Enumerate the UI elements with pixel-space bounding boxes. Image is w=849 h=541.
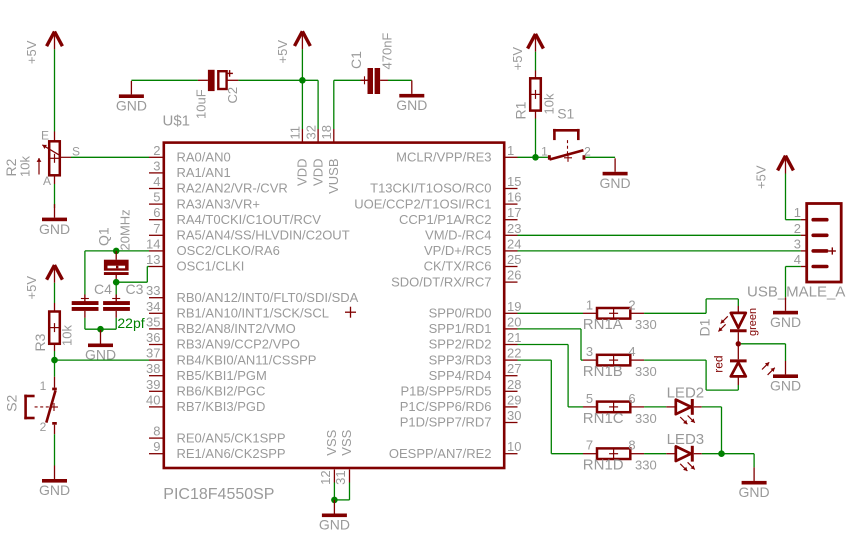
svg-text:GND: GND — [396, 97, 427, 113]
svg-text:VSS: VSS — [339, 429, 354, 455]
svg-text:470nF: 470nF — [380, 33, 395, 70]
svg-text:15: 15 — [507, 174, 521, 189]
svg-text:25: 25 — [507, 252, 521, 267]
resistor RN1C 330 — [583, 391, 657, 427]
svg-text:RA4/T0CKI/C1OUT/RCV: RA4/T0CKI/C1OUT/RCV — [177, 212, 322, 227]
U1 pin 7 RA5/AN4/SS/HLVDIN/C2OUT — [149, 221, 350, 243]
wire junction to S1 — [536, 156, 548, 158]
svg-text:C4: C4 — [94, 281, 112, 297]
wire C2 to junction — [238, 79, 302, 81]
capacitor C3 22pf — [103, 281, 144, 318]
svg-text:7: 7 — [586, 438, 593, 453]
svg-text:VM/D-/RC4: VM/D-/RC4 — [425, 228, 491, 243]
svg-text:R1: R1 — [513, 101, 529, 119]
svg-text:GND: GND — [739, 484, 770, 500]
LED LED3 — [666, 431, 704, 471]
svg-text:+5V: +5V — [24, 276, 39, 300]
ground GND6 — [600, 158, 631, 191]
svg-text:RB0/AN12/INT0/FLT0/SDI/SDA: RB0/AN12/INT0/FLT0/SDI/SDA — [177, 290, 359, 305]
svg-text:CK/TX/RC6: CK/TX/RC6 — [424, 259, 492, 274]
wire +5V down — [301, 49, 303, 80]
U1 pin 29 P1C/SPP6/RD6 — [400, 392, 522, 414]
U1 pin 20 SPP1/RD1 — [429, 314, 522, 336]
svg-text:1: 1 — [586, 297, 593, 312]
svg-text:SPP4/RD4: SPP4/RD4 — [429, 368, 492, 383]
svg-text:2: 2 — [584, 145, 591, 159]
svg-text:PIC18F4550SP: PIC18F4550SP — [163, 486, 274, 503]
svg-text:+5V: +5V — [275, 40, 290, 64]
wire R1 to junction — [535, 119, 537, 158]
svg-text:4: 4 — [153, 174, 160, 189]
svg-text:+5V: +5V — [24, 40, 39, 64]
wire R2 bottom to ground — [54, 184, 56, 208]
wire +5V to R3 — [54, 283, 56, 303]
svg-text:VUSB: VUSB — [326, 159, 341, 194]
svg-text:35: 35 — [146, 314, 160, 329]
svg-text:12: 12 — [318, 470, 333, 484]
U1 pin 16 UOE/CCP2/T1OSI/RC1 — [354, 190, 521, 212]
wire R3 to junction — [54, 351, 56, 360]
svg-text:MCLR/VPP/RE3: MCLR/VPP/RE3 — [396, 150, 491, 165]
svg-text:8: 8 — [153, 424, 160, 439]
wire GND to C2 — [131, 79, 198, 81]
svg-text:SPP1/RD1: SPP1/RD1 — [429, 321, 492, 336]
svg-text:1: 1 — [541, 145, 548, 159]
U1 pin 30 P1D/SPP7/RD7 — [400, 408, 522, 430]
supply +5V P1 — [24, 32, 62, 65]
svg-text:GND: GND — [116, 98, 147, 114]
U1 pin 26 SDO/DT/RX/RC7 — [391, 268, 521, 290]
U1 pin 24 VP/D+/RC5 — [424, 236, 522, 258]
svg-text:RN1B: RN1B — [583, 363, 623, 380]
svg-text:A: A — [43, 174, 51, 188]
svg-text:28: 28 — [507, 377, 521, 392]
supply +5V P4 — [510, 34, 544, 71]
supply +5V P5 — [754, 156, 794, 189]
svg-text:GND: GND — [770, 314, 801, 330]
svg-text:RA0/AN0: RA0/AN0 — [177, 150, 231, 165]
U1 pin 21 SPP2/RD2 — [429, 330, 522, 352]
wire pin 21 to RN1C — [518, 345, 584, 407]
svg-text:4: 4 — [794, 252, 801, 267]
svg-text:18: 18 — [319, 125, 334, 139]
wire RN1A to D1 green anode — [644, 299, 738, 313]
svg-text:27: 27 — [507, 361, 521, 376]
svg-text:RA5/AN4/SS/HLVDIN/C2OUT: RA5/AN4/SS/HLVDIN/C2OUT — [177, 228, 350, 243]
node junction MCLR — [532, 154, 539, 161]
wire junction to pin 11 — [301, 80, 303, 129]
wire pin 23 to USB pin 2 — [518, 234, 801, 236]
svg-text:+5V: +5V — [754, 165, 769, 189]
U1 pin 38 RB5/KBI1/PGM — [146, 361, 267, 383]
svg-text:5: 5 — [586, 391, 593, 406]
svg-text:9: 9 — [153, 439, 160, 454]
value label 22pf — [117, 315, 144, 331]
resistor R1 10k — [513, 71, 557, 120]
wire LED3 to junction — [702, 453, 722, 455]
svg-text:34: 34 — [146, 299, 160, 314]
svg-text:21: 21 — [507, 330, 521, 345]
svg-text:26: 26 — [507, 268, 521, 283]
crystal Q1 20MHz — [96, 209, 133, 282]
svg-text:VDD: VDD — [295, 159, 310, 186]
wire RN1D to LED3 — [644, 453, 666, 455]
svg-text:2: 2 — [40, 420, 47, 434]
U1 pin 40 RB7/KBI3/PGD — [146, 392, 265, 414]
connector USB_MALE_A — [747, 204, 845, 301]
svg-text:3: 3 — [153, 158, 160, 173]
switch S1 — [541, 106, 591, 162]
wire RN1C to LED2 — [644, 406, 666, 408]
IC U1 PIC18F4550 body — [164, 143, 504, 468]
U1 pin 27 SPP4/RD4 — [429, 361, 522, 383]
wire C1 to ground — [388, 79, 412, 81]
svg-text:UOE/CCP2/T1OSI/RC1: UOE/CCP2/T1OSI/RC1 — [354, 196, 491, 211]
node junction VSS — [331, 497, 338, 504]
wire R2 wiper to pin 2 — [71, 156, 149, 158]
U1 pin 9 RE1/AN6/CK2SPP — [149, 439, 286, 461]
wire RN1B to D1 red anode — [644, 360, 738, 390]
svg-text:6: 6 — [628, 391, 635, 406]
svg-text:GND: GND — [770, 378, 801, 394]
svg-text:11: 11 — [288, 126, 303, 140]
svg-text:19: 19 — [507, 299, 521, 314]
svg-text:RN1C: RN1C — [583, 410, 624, 427]
svg-text:2: 2 — [153, 143, 160, 158]
node junction Q1 top — [113, 248, 120, 255]
wire junction to ground — [722, 454, 755, 468]
svg-text:6: 6 — [153, 205, 160, 220]
U1 pin 31 VSS — [333, 429, 354, 485]
U1 pin 1 MCLR/VPP/RE3 — [396, 143, 517, 165]
node junction R3 S2 — [51, 357, 58, 364]
svg-text:CCP1/P1A/RC2: CCP1/P1A/RC2 — [399, 212, 491, 227]
svg-text:RB5/KBI1/PGM: RB5/KBI1/PGM — [177, 368, 267, 383]
svg-text:D1: D1 — [697, 318, 713, 336]
U1 name label — [163, 113, 191, 130]
resistor R3 10k — [32, 303, 75, 352]
svg-text:RE0/AN5/CK1SPP: RE0/AN5/CK1SPP — [177, 430, 286, 445]
svg-text:33: 33 — [146, 283, 160, 298]
ground GND4 — [116, 81, 147, 114]
svg-text:+5V: +5V — [510, 47, 525, 71]
svg-text:RB6/KBI2/PGC: RB6/KBI2/PGC — [177, 384, 266, 399]
svg-text:10k: 10k — [60, 325, 75, 346]
U1 pin 3 RA1/AN1 — [149, 158, 231, 180]
svg-text:4: 4 — [628, 344, 635, 359]
svg-text:22: 22 — [507, 346, 521, 361]
wire junction to pin 37 — [55, 359, 150, 361]
svg-text:330: 330 — [635, 317, 657, 332]
LED D1 bicolor — [697, 306, 775, 385]
svg-text:10k: 10k — [542, 93, 557, 114]
U1 pin 2 RA0/AN0 — [149, 143, 231, 165]
capacitor C2 10uF — [194, 70, 241, 119]
ground GND3 — [39, 466, 70, 499]
LED LED2 — [666, 384, 704, 424]
svg-text:RB2/AN8/INT2/VMO: RB2/AN8/INT2/VMO — [177, 321, 296, 336]
wire S1 to ground — [585, 156, 615, 158]
svg-text:S: S — [72, 144, 80, 158]
ground GND1 — [39, 204, 70, 237]
svg-text:31: 31 — [333, 470, 348, 484]
svg-text:38: 38 — [146, 361, 160, 376]
svg-text:10uF: 10uF — [194, 89, 209, 119]
U1 pin 37 RB4/KBI0/AN11/CSSPP — [146, 346, 316, 368]
U1 pin 35 RB2/AN8/INT2/VMO — [146, 314, 296, 336]
svg-text:GND: GND — [39, 221, 70, 237]
U1 pin 33 RB0/AN12/INT0/FLT0/SDI/SDA — [146, 283, 359, 305]
svg-text:SPP0/RD0: SPP0/RD0 — [429, 306, 492, 321]
svg-text:330: 330 — [635, 364, 657, 379]
U1 pin 28 P1B/SPP5/RD5 — [400, 377, 521, 399]
svg-text:17: 17 — [507, 205, 521, 220]
resistor RN1D 330 — [583, 438, 657, 474]
wire LED2 to junction — [702, 407, 722, 454]
svg-text:5: 5 — [153, 190, 160, 205]
wire +5V to R2 — [54, 49, 56, 131]
U1 pin 11 VDD — [288, 126, 310, 186]
svg-text:VDD: VDD — [310, 159, 325, 186]
U1 pin 39 RB6/KBI2/PGC — [146, 377, 265, 399]
wire pin 1 to junction — [518, 156, 536, 158]
svg-text:RB4/KBI0/AN11/CSSPP: RB4/KBI0/AN11/CSSPP — [177, 352, 317, 367]
U1 pin 36 RB3/AN9/CCP2/VPO — [146, 330, 300, 352]
svg-text:330: 330 — [635, 411, 657, 426]
svg-text:29: 29 — [507, 392, 521, 407]
svg-text:LED2: LED2 — [667, 384, 705, 401]
U1 pin 15 T13CKI/T1OSO/RC0 — [370, 174, 521, 196]
svg-text:RA2/AN2/VR-/CVR: RA2/AN2/VR-/CVR — [177, 181, 288, 196]
svg-text:red: red — [711, 355, 725, 372]
wire S2 to ground — [54, 434, 56, 465]
svg-text:20: 20 — [507, 314, 521, 329]
svg-text:20MHz: 20MHz — [118, 209, 133, 250]
U1 pin 34 RB1/AN10/INT1/SCK/SCL — [146, 299, 329, 321]
svg-text:U$1: U$1 — [163, 113, 191, 130]
wire Q1 bottom to pin 13 — [116, 267, 149, 283]
svg-text:C3: C3 — [126, 281, 144, 297]
resistor RN1B 330 — [583, 344, 657, 380]
U1 origin cross — [345, 307, 356, 318]
U1 value label PIC18F4550SP — [163, 486, 274, 503]
svg-text:T13CKI/T1OSO/RC0: T13CKI/T1OSO/RC0 — [370, 181, 491, 196]
wire +5V to R1 — [535, 52, 537, 71]
wire rail down to C4 — [84, 251, 86, 295]
svg-text:24: 24 — [507, 236, 521, 251]
svg-text:LED3: LED3 — [667, 431, 705, 448]
U1 pin 19 SPP0/RD0 — [429, 299, 522, 321]
svg-text:RB7/KBI3/PGD: RB7/KBI3/PGD — [177, 399, 266, 414]
U1 pin 8 RE0/AN5/CK1SPP — [149, 424, 286, 446]
U1 pin 10 OESPP/AN7/RE2 — [389, 439, 522, 461]
svg-text:23: 23 — [507, 221, 521, 236]
svg-text:SPP2/RD2: SPP2/RD2 — [429, 337, 492, 352]
svg-text:2: 2 — [794, 221, 801, 236]
svg-text:3: 3 — [794, 236, 801, 251]
wire pin 20 to RN1B — [518, 329, 584, 360]
svg-text:VSS: VSS — [324, 429, 339, 455]
svg-text:10k: 10k — [18, 156, 33, 177]
trimmer R2 10k — [3, 129, 80, 188]
svg-text:30: 30 — [507, 408, 521, 423]
U1 pin 12 VSS — [318, 429, 339, 485]
wire pin14 to crystal rail — [85, 250, 149, 252]
svg-text:S2: S2 — [4, 394, 20, 411]
svg-text:22pf: 22pf — [117, 315, 144, 331]
svg-text:2: 2 — [628, 297, 635, 312]
capacitor C1 470nF — [348, 33, 395, 94]
wire pin 19 to RN1A — [518, 312, 584, 314]
U1 pin 18 VUSB — [319, 125, 341, 194]
node junction caps gnd — [97, 326, 104, 333]
svg-text:R3: R3 — [32, 333, 48, 351]
svg-text:RE1/AN6/CK2SPP: RE1/AN6/CK2SPP — [177, 446, 286, 461]
U1 pin 32 VDD — [303, 125, 325, 186]
svg-text:GND: GND — [600, 175, 631, 191]
svg-text:RN1D: RN1D — [583, 457, 624, 474]
supply +5V P3 — [275, 31, 310, 63]
U1 pin 25 CK/TX/RC6 — [424, 252, 522, 274]
svg-text:RA3/AN3/VR+: RA3/AN3/VR+ — [177, 196, 260, 211]
svg-text:VP/D+/RC5: VP/D+/RC5 — [424, 243, 492, 258]
svg-text:7: 7 — [153, 221, 160, 236]
wire D1 common to ground — [741, 344, 786, 361]
capacitor C4 22pf — [72, 281, 112, 318]
svg-text:40: 40 — [146, 392, 160, 407]
ground GND10 — [319, 500, 350, 533]
svg-text:GND: GND — [39, 482, 70, 498]
svg-text:C2: C2 — [225, 87, 240, 104]
U1 pin 6 RA4/T0CKI/C1OUT/RCV — [149, 205, 321, 227]
ground GND2 — [85, 330, 116, 363]
svg-text:SDO/DT/RX/RC7: SDO/DT/RX/RC7 — [391, 274, 491, 289]
ground GND7 — [770, 297, 801, 330]
svg-text:E: E — [41, 129, 49, 143]
svg-text:36: 36 — [146, 330, 160, 345]
U1 pin 4 RA2/AN2/VR-/CVR — [149, 174, 288, 196]
svg-text:1: 1 — [794, 205, 801, 220]
wire pin 18 to C1 — [334, 80, 361, 129]
svg-text:1: 1 — [40, 379, 47, 393]
supply +5V P2 — [24, 265, 62, 300]
svg-text:OSC1/CLKI: OSC1/CLKI — [177, 259, 245, 274]
wire USB pin 4 to ground — [786, 267, 801, 298]
U1 pin 14 OSC2/CLKO/RA6 — [146, 236, 280, 258]
svg-text:37: 37 — [146, 346, 160, 361]
node junction Q1 bottom — [113, 279, 120, 286]
wire junction to S2 — [54, 360, 56, 377]
svg-text:RN1A: RN1A — [583, 316, 623, 333]
svg-text:SPP3/RD3: SPP3/RD3 — [429, 352, 492, 367]
resistor RN1A 330 — [583, 297, 657, 333]
svg-text:8: 8 — [628, 438, 635, 453]
svg-text:C1: C1 — [348, 51, 364, 69]
wire pin 24 to USB pin 3 — [518, 250, 801, 252]
svg-text:13: 13 — [146, 252, 160, 267]
svg-text:Q1: Q1 — [96, 227, 112, 246]
U1 pin 17 CCP1/P1A/RC2 — [399, 205, 521, 227]
svg-text:16: 16 — [507, 190, 521, 205]
svg-text:GND: GND — [319, 517, 350, 533]
ground GND8 — [770, 361, 801, 394]
svg-text:USB_MALE_A: USB_MALE_A — [747, 284, 845, 301]
wire pin 31 to junction — [334, 483, 349, 500]
svg-text:RB3/AN9/CCP2/VPO: RB3/AN9/CCP2/VPO — [177, 337, 301, 352]
svg-text:OESPP/AN7/RE2: OESPP/AN7/RE2 — [389, 446, 492, 461]
svg-text:10: 10 — [507, 439, 521, 454]
svg-text:39: 39 — [146, 377, 160, 392]
svg-text:14: 14 — [146, 236, 160, 251]
node junction VDD rail — [299, 77, 306, 84]
node junction LED2 LED3 — [718, 450, 725, 457]
U1 pin 22 SPP3/RD3 — [429, 346, 522, 368]
wire C4 C3 to ground — [85, 318, 116, 329]
wire junction to pin 32 — [302, 80, 318, 129]
ground GND9 — [739, 467, 770, 500]
ground GND5 — [396, 80, 427, 113]
wire pin 12 to junction — [333, 483, 335, 500]
svg-text:P1B/SPP5/RD5: P1B/SPP5/RD5 — [400, 384, 491, 399]
svg-text:32: 32 — [303, 125, 318, 139]
wire +5V to USB pin 1 — [786, 174, 801, 220]
U1 pin 13 OSC1/CLKI — [146, 252, 244, 274]
wire pin 22 to RN1D — [518, 360, 584, 454]
svg-text:OSC2/CLKO/RA6: OSC2/CLKO/RA6 — [177, 243, 280, 258]
svg-text:P1D/SPP7/RD7: P1D/SPP7/RD7 — [400, 415, 492, 430]
switch S2 — [4, 377, 58, 434]
svg-text:3: 3 — [586, 344, 593, 359]
U1 pin 5 RA3/AN3/VR+ — [149, 190, 260, 212]
svg-text:RA1/AN1: RA1/AN1 — [177, 165, 231, 180]
svg-text:S1: S1 — [557, 106, 574, 122]
svg-text:green: green — [747, 308, 759, 336]
svg-text:P1C/SPP6/RD6: P1C/SPP6/RD6 — [400, 399, 492, 414]
svg-text:1: 1 — [507, 143, 514, 158]
svg-text:330: 330 — [635, 458, 657, 473]
U1 pin 23 VM/D-/RC4 — [425, 221, 521, 243]
svg-text:RB1/AN10/INT1/SCK/SCL: RB1/AN10/INT1/SCK/SCL — [177, 306, 329, 321]
